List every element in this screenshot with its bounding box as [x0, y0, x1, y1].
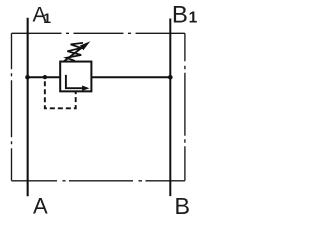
junction node at A line	[25, 75, 30, 80]
junction node pilot tap	[43, 75, 47, 79]
svg-text:1: 1	[43, 10, 51, 26]
adjustable spring (zigzag)	[66, 43, 83, 61]
wire: main line from valve outlet to B line	[91, 76, 171, 78]
svg-text:B: B	[172, 2, 188, 29]
pilot line (dashed) from tap to valve bottom	[45, 81, 76, 108]
enclosure frame (dash-dot subplate boundary)	[12, 33, 185, 181]
port line B1-B (right vertical line)	[169, 19, 171, 197]
relief valve V1 body (square envelope)	[60, 62, 91, 92]
adjustment arrowhead	[80, 41, 91, 50]
junction node at B line	[168, 75, 173, 80]
port line A1-A (left vertical line)	[27, 18, 29, 197]
svg-text:B: B	[174, 193, 190, 217]
adjustment arrow shaft	[64, 47, 83, 62]
wire: main line from A line to valve inlet	[28, 76, 61, 78]
svg-text:A: A	[33, 194, 48, 217]
internal flow path arrow (closed position)	[66, 75, 83, 88]
svg-text:1: 1	[189, 10, 198, 27]
